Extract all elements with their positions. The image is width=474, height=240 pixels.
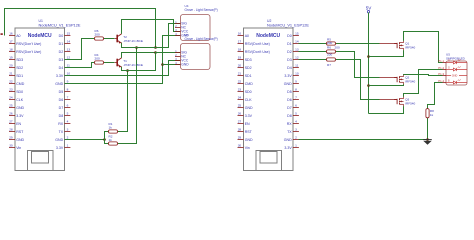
svg-text:GND: GND xyxy=(181,63,189,67)
svg-text:200: 200 xyxy=(327,41,332,45)
sensor U4 pin 1 SIG xyxy=(175,23,181,25)
svg-text:11: 11 xyxy=(295,64,298,68)
U2 pin 29 GND xyxy=(238,139,244,141)
wire T1 collector joins SIG2 net xyxy=(122,53,156,58)
svg-text:-PNP-2C-BCE: -PNP-2C-BCE xyxy=(123,63,143,67)
svg-text:6: 6 xyxy=(295,104,297,108)
wire T2 emitter to SIG of U4 xyxy=(122,24,181,48)
svg-text:D1: D1 xyxy=(287,42,292,46)
svg-text:Vin: Vin xyxy=(16,146,21,150)
svg-text:D5: D5 xyxy=(287,90,292,94)
U2 pin 27 EN xyxy=(238,123,244,125)
module U5 pin P1.2 xyxy=(443,69,447,71)
svg-text:27: 27 xyxy=(9,120,13,124)
svg-text:5: 5 xyxy=(67,112,69,116)
svg-text:17: 17 xyxy=(9,40,13,44)
wire R4 to T1 base xyxy=(104,62,115,64)
U1 pin 5 D8 xyxy=(64,115,70,117)
svg-text:CLK: CLK xyxy=(245,98,253,102)
U2 pin 5 D8 xyxy=(293,115,299,117)
svg-text:SD3: SD3 xyxy=(245,58,252,62)
svg-text:1k: 1k xyxy=(109,138,113,142)
wire R7 to Q3 gate xyxy=(336,60,380,100)
node junction R8 ground xyxy=(426,138,429,141)
U1 pin 20 SD2 xyxy=(9,67,15,69)
svg-text:3.3V: 3.3V xyxy=(56,146,64,150)
svg-text:200: 200 xyxy=(335,46,340,50)
svg-text:-PNP-2C-BCE: -PNP-2C-BCE xyxy=(123,39,143,43)
U1 pin 24 CLK xyxy=(9,99,15,101)
U2 pin 13 D2 xyxy=(293,51,299,53)
svg-text:1: 1 xyxy=(295,144,297,148)
svg-text:29: 29 xyxy=(9,136,13,140)
svg-text:25: 25 xyxy=(238,104,242,108)
resistor R5 body xyxy=(327,42,336,45)
svg-text:D4: D4 xyxy=(59,66,64,70)
svg-text:GND: GND xyxy=(16,138,24,142)
U2 pin 6 D7 xyxy=(293,107,299,109)
resistor R1 body xyxy=(109,130,118,133)
U1 pin 6 D7 xyxy=(64,107,70,109)
svg-text:GND: GND xyxy=(284,82,292,86)
ground xyxy=(423,139,432,141)
svg-text:20: 20 xyxy=(9,64,13,68)
svg-text:EN: EN xyxy=(16,122,21,126)
svg-text:30: 30 xyxy=(9,144,13,148)
U1 pin 3 TX xyxy=(64,131,70,133)
svg-text:12: 12 xyxy=(295,56,299,60)
svg-text:RSV(Don't Use): RSV(Don't Use) xyxy=(16,50,41,54)
U2 pin 10 3.3V xyxy=(293,75,299,77)
U2 pin 19 SD3 xyxy=(238,59,244,61)
sensor U4 pin 4 GND xyxy=(175,35,181,37)
svg-text:RSV(Don't Use): RSV(Don't Use) xyxy=(245,50,270,54)
svg-text:1: 1 xyxy=(67,144,69,148)
svg-text:16: 16 xyxy=(238,32,242,36)
svg-text:3.3V: 3.3V xyxy=(284,146,292,150)
svg-text:D8: D8 xyxy=(287,114,292,118)
svg-text:3.3V: 3.3V xyxy=(16,114,24,118)
svg-text:3: 3 xyxy=(67,128,69,132)
svg-text:26: 26 xyxy=(9,112,13,116)
svg-text:D2: D2 xyxy=(59,50,64,54)
svg-text:SD0: SD0 xyxy=(245,90,252,94)
U2 pin 20 SD2 xyxy=(238,67,244,69)
svg-text:D0: D0 xyxy=(59,34,64,38)
svg-text:6: 6 xyxy=(67,104,69,108)
svg-text:28: 28 xyxy=(9,128,13,132)
svg-text:21: 21 xyxy=(9,72,13,76)
resistor R2 body xyxy=(109,142,118,145)
svg-text:CMD: CMD xyxy=(245,82,254,86)
U1 pin 21 SD1 xyxy=(9,75,15,77)
U1 pin 2 GND xyxy=(64,139,70,141)
U1 pin 26 3.3V xyxy=(9,115,15,117)
svg-text:RSV(Don't Use): RSV(Don't Use) xyxy=(245,42,270,46)
U2 pin 22 CMD xyxy=(238,83,244,85)
U2 pin 4 RX xyxy=(293,123,299,125)
wire T2 collector to U4 VCC xyxy=(122,20,181,34)
wire U1 GND pin 2 to R1 R2 xyxy=(65,139,105,141)
svg-text:26: 26 xyxy=(238,112,242,116)
U2 pin 21 SD1 xyxy=(238,75,244,77)
node junction T2 emitter xyxy=(135,46,138,49)
wire split up to R1 xyxy=(105,132,109,140)
module U5 internal GND label xyxy=(446,75,451,77)
wire split down to R2 xyxy=(105,140,109,144)
U2 pin 7 D6 xyxy=(293,99,299,101)
svg-text:8: 8 xyxy=(67,88,69,92)
net stub at left edge xyxy=(1,33,3,35)
svg-text:22: 22 xyxy=(238,80,242,84)
svg-text:28: 28 xyxy=(238,128,242,132)
svg-text:23: 23 xyxy=(9,88,13,92)
svg-text:D3: D3 xyxy=(287,58,292,62)
U1 pin 30 Vin xyxy=(9,147,15,149)
wire R5 to Q1 gate xyxy=(336,43,380,45)
resistor R4 body xyxy=(95,61,104,64)
U1 pin 25 GND xyxy=(9,107,15,109)
svg-text:D7: D7 xyxy=(59,106,64,110)
U2 pin 18 RSV(Don't Use) xyxy=(238,51,244,53)
svg-text:Vin: Vin xyxy=(245,146,250,150)
svg-text:RST: RST xyxy=(245,130,253,134)
svg-text:20: 20 xyxy=(238,64,242,68)
svg-text:Grove - Light Sensor(P): Grove - Light Sensor(P) xyxy=(185,8,218,12)
svg-text:GND: GND xyxy=(452,75,458,78)
svg-text:RX: RX xyxy=(287,122,293,126)
wire R2 to T2 emitter line xyxy=(118,48,137,144)
U2 pin 11 D4 xyxy=(293,67,299,69)
svg-text:5: 5 xyxy=(295,112,297,116)
wire Q1 source to 5V rail xyxy=(369,50,404,56)
svg-text:SD3: SD3 xyxy=(16,58,23,62)
wire U1 D3 pin 12 to R6 xyxy=(65,39,95,60)
U1 pin 17 RSV(Don't Use) xyxy=(9,43,15,45)
svg-text:9: 9 xyxy=(295,80,297,84)
wire U5 P1.4 to R8 xyxy=(428,83,443,109)
svg-text:2: 2 xyxy=(295,136,297,140)
svg-text:SD1: SD1 xyxy=(16,74,23,78)
svg-text:D2: D2 xyxy=(287,50,292,54)
svg-text:CLK: CLK xyxy=(16,98,24,102)
svg-text:NodeMCU: NodeMCU xyxy=(28,33,52,39)
module U5 pin P1.1 xyxy=(443,62,447,64)
svg-text:D4: D4 xyxy=(287,66,292,70)
U2 pin 24 CLK xyxy=(238,99,244,101)
module U5 pin P1.4 xyxy=(443,82,447,84)
svg-text:GND: GND xyxy=(284,138,292,142)
svg-text:P1.1: P1.1 xyxy=(438,59,444,63)
module U5 pin P1.3 xyxy=(443,75,447,77)
svg-text:19: 19 xyxy=(9,56,13,60)
resistor R6b body xyxy=(327,50,336,53)
U1 pin 8 D5 xyxy=(64,91,70,93)
svg-text:GND: GND xyxy=(55,138,63,142)
wire Q2 source to 5V rail xyxy=(369,84,404,85)
U1 pin 22 CMD xyxy=(9,83,15,85)
wire 5V rail down xyxy=(368,12,370,113)
U2 USB connector outline xyxy=(256,151,281,171)
U1 USB connector outline xyxy=(28,151,53,171)
svg-text:D3: D3 xyxy=(59,58,64,62)
svg-text:18: 18 xyxy=(238,48,242,52)
U2 pin 30 Vin xyxy=(238,147,244,149)
svg-text:15: 15 xyxy=(67,32,71,36)
resistor R6 body xyxy=(95,37,104,40)
U1 pin 27 EN xyxy=(9,123,15,125)
wire R8 to ground xyxy=(427,118,429,140)
svg-text:200: 200 xyxy=(327,53,332,57)
wire U2 D2 pin 13 to R6b xyxy=(299,51,327,53)
svg-text:13: 13 xyxy=(67,48,71,52)
svg-text:P1.4: P1.4 xyxy=(438,79,444,83)
svg-text:GND: GND xyxy=(16,106,24,110)
transistor Q2 IRF540 N-MOSFET symbol xyxy=(394,77,397,79)
svg-text:SMRPGBLED: SMRPGBLED xyxy=(446,56,466,60)
sensor U4 pin 3 VCC xyxy=(175,31,181,33)
U1 pin 1 3.3V xyxy=(64,147,70,149)
U2 pin 17 RSV(Don't Use) xyxy=(238,43,244,45)
wire U1 D4 pin 11 to R4 xyxy=(65,63,95,68)
svg-text:D8: D8 xyxy=(59,114,64,118)
sensor U3 body xyxy=(181,44,211,70)
U1 pin 16 A0 xyxy=(9,35,15,37)
transistor Q1 IRF540 N-MOSFET symbol xyxy=(394,43,397,45)
svg-text:GND: GND xyxy=(245,106,253,110)
svg-text:SD1: SD1 xyxy=(245,74,252,78)
sensor U4 pin 2 NC xyxy=(175,27,181,29)
svg-text:10: 10 xyxy=(295,72,299,76)
node junction R1/R2 split xyxy=(103,138,106,141)
svg-text:D1: D1 xyxy=(59,42,64,46)
U2 pin 15 D0 xyxy=(293,35,299,37)
U2 pin 12 D3 xyxy=(293,59,299,61)
module U5 body xyxy=(446,61,467,85)
svg-text:D5: D5 xyxy=(59,90,64,94)
node junction T1 collector to SIG2 vertical xyxy=(154,51,157,54)
svg-text:200: 200 xyxy=(95,56,100,60)
svg-text:19: 19 xyxy=(238,56,242,60)
svg-text:14: 14 xyxy=(295,40,299,44)
wire T1 emitter to SIG of U3 xyxy=(122,53,181,71)
svg-text:CMD: CMD xyxy=(16,82,25,86)
svg-text:200: 200 xyxy=(95,32,100,36)
U2 pin 1 3.3V xyxy=(293,147,299,149)
svg-text:TX: TX xyxy=(287,130,292,134)
U2 pin 23 SD0 xyxy=(238,91,244,93)
wire U2 D1 pin 14 to R5 xyxy=(299,43,327,45)
svg-text:R6: R6 xyxy=(327,46,331,50)
svg-text:14: 14 xyxy=(67,40,71,44)
U2 pin 25 GND xyxy=(238,107,244,109)
svg-text:18: 18 xyxy=(9,48,13,52)
transistor Q3 IRF540 N-MOSFET symbol xyxy=(394,99,397,101)
svg-text:GND: GND xyxy=(245,138,253,142)
svg-text:7: 7 xyxy=(67,96,69,100)
module U1 NodeMCU xyxy=(15,28,64,171)
svg-text:Grove - Light Sensor(P): Grove - Light Sensor(P) xyxy=(185,37,218,41)
svg-text:3.3V: 3.3V xyxy=(284,74,292,78)
svg-text:D0: D0 xyxy=(287,34,292,38)
svg-text:8: 8 xyxy=(295,88,297,92)
svg-text:29: 29 xyxy=(238,136,242,140)
svg-text:NodeMCU: NodeMCU xyxy=(256,33,280,39)
wire A0 net from U1 pin 16 up and across top xyxy=(5,9,156,48)
module U5 internal R LED xyxy=(446,62,453,64)
wire Q2 drain to U5 P1.3 xyxy=(404,75,443,76)
sensor U3 pin 4 GND xyxy=(175,64,181,66)
U1 pin 18 RSV(Don't Use) xyxy=(9,51,15,53)
module U5 internal B LED xyxy=(446,82,453,84)
U2 pin 26 3.3V xyxy=(238,115,244,117)
svg-text:21: 21 xyxy=(238,72,242,76)
sensor U3 pin 1 SIG xyxy=(175,52,181,54)
wire R6b to Q2 gate xyxy=(336,52,380,78)
U1 pin 29 GND xyxy=(9,139,15,141)
U2 pin 28 RST xyxy=(238,131,244,133)
U1 pin 13 D2 xyxy=(64,51,70,53)
U1 pin 15 D0 xyxy=(64,35,70,37)
svg-text:13: 13 xyxy=(295,48,299,52)
svg-text:1k: 1k xyxy=(430,113,434,117)
svg-text:NodeMCU_V1_ESP12E: NodeMCU_V1_ESP12E xyxy=(267,22,309,27)
svg-text:16: 16 xyxy=(9,32,13,36)
wire U2 GND pin 2 to ground xyxy=(299,139,428,141)
svg-text:SD2: SD2 xyxy=(16,66,23,70)
svg-text:3.3V: 3.3V xyxy=(56,74,64,78)
svg-text:25: 25 xyxy=(9,104,13,108)
svg-text:4: 4 xyxy=(295,120,297,124)
wire GND rail from U1 pin 9 xyxy=(65,36,181,84)
wire U2 D3 pin 12 to R7 xyxy=(299,59,327,61)
svg-text:30: 30 xyxy=(238,144,242,148)
wire R6 to T2 base xyxy=(104,38,115,40)
module U5 internal G LED xyxy=(446,69,453,71)
svg-text:IRF540: IRF540 xyxy=(405,101,415,105)
U2 pin 2 GND xyxy=(293,139,299,141)
svg-text:23: 23 xyxy=(238,88,242,92)
resistor R8 body xyxy=(426,109,429,118)
U1 pin 9 GND xyxy=(64,83,70,85)
svg-text:RST: RST xyxy=(16,130,24,134)
U2 pin 8 D5 xyxy=(293,91,299,93)
wire GND branch to U3 GND pin xyxy=(163,64,181,66)
svg-text:3: 3 xyxy=(295,128,297,132)
svg-text:GND: GND xyxy=(55,82,63,86)
U2 USB connector inner xyxy=(260,152,277,163)
module U2 NodeMCU xyxy=(244,28,293,171)
svg-text:RSV(Don't Use): RSV(Don't Use) xyxy=(16,42,41,46)
U1 pin 12 D3 xyxy=(64,59,70,61)
svg-text:D6: D6 xyxy=(59,98,64,102)
node junction GND rail to U3 GND xyxy=(161,63,164,66)
svg-text:24: 24 xyxy=(238,96,242,100)
U1 pin 7 D6 xyxy=(64,99,70,101)
U2 pin 9 GND xyxy=(293,83,299,85)
U1 pin 4 RX xyxy=(64,123,70,125)
svg-text:NodeMCU_V1_ESP12E: NodeMCU_V1_ESP12E xyxy=(39,22,81,27)
node junction T1 emitter xyxy=(126,69,129,72)
svg-text:IRF540: IRF540 xyxy=(405,45,415,49)
sensor U3 pin 2 NC xyxy=(175,56,181,58)
U1 USB connector inner xyxy=(32,152,49,163)
svg-text:7: 7 xyxy=(295,96,297,100)
svg-text:3.3V: 3.3V xyxy=(245,114,253,118)
node junction Q1 source to 5V rail xyxy=(367,55,370,58)
U1 pin 14 D1 xyxy=(64,43,70,45)
svg-text:G: G xyxy=(448,68,450,70)
svg-text:22: 22 xyxy=(9,80,13,84)
svg-text:SD0: SD0 xyxy=(16,90,23,94)
sensor U4 body xyxy=(181,15,211,41)
svg-text:D6: D6 xyxy=(287,98,292,102)
svg-text:D7: D7 xyxy=(287,106,292,110)
U1 pin 28 RST xyxy=(9,131,15,133)
U2 pin 14 D1 xyxy=(293,43,299,45)
svg-text:SD2: SD2 xyxy=(245,66,252,70)
svg-text:15: 15 xyxy=(295,32,299,36)
resistor R7 body xyxy=(327,58,336,61)
svg-text:24: 24 xyxy=(9,96,13,100)
transistor T2 PNP symbol xyxy=(116,35,118,43)
svg-text:RX: RX xyxy=(58,122,64,126)
svg-text:IRF540: IRF540 xyxy=(405,79,415,83)
U1 pin 10 3.3V xyxy=(64,75,70,77)
svg-text:A0: A0 xyxy=(16,34,20,38)
transistor T1 PNP symbol xyxy=(116,59,118,67)
wire Q3 drain to U5 P1.2 xyxy=(404,70,443,97)
wire 3.3V rail from U1 pin 10 to VCC of U3 xyxy=(65,61,181,76)
U2 pin 3 TX xyxy=(293,131,299,133)
U2 pin 16 A0 xyxy=(238,35,244,37)
wire R1 to T1 emitter line xyxy=(118,71,128,132)
node junction A0 joins T2 emitter wire xyxy=(154,46,157,49)
svg-text:R7: R7 xyxy=(327,63,331,67)
wire Q3 source to 5V rail xyxy=(369,106,404,113)
svg-text:4: 4 xyxy=(67,120,69,124)
svg-text:P1.2: P1.2 xyxy=(438,66,444,70)
U1 pin 19 SD3 xyxy=(9,59,15,61)
svg-text:17: 17 xyxy=(238,40,242,44)
U1 pin 23 SD0 xyxy=(9,91,15,93)
svg-text:5V: 5V xyxy=(366,6,373,11)
svg-text:TX: TX xyxy=(59,130,64,134)
svg-text:A0: A0 xyxy=(245,34,249,38)
sensor U3 pin 3 VCC xyxy=(175,60,181,62)
svg-text:27: 27 xyxy=(238,120,242,124)
svg-text:P1.3: P1.3 xyxy=(438,72,444,76)
wire Q1 drain to U5 P1.1 xyxy=(404,32,443,63)
node junction Q2 source to 5V rail xyxy=(367,84,370,87)
svg-text:EN: EN xyxy=(245,122,250,126)
U1 pin 11 D4 xyxy=(64,67,70,69)
svg-text:1k: 1k xyxy=(109,126,113,130)
